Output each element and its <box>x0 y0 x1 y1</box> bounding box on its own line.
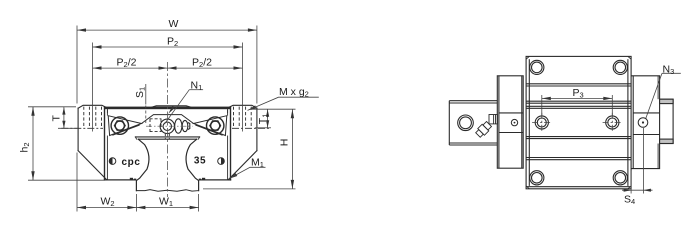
svg-text:35: 35 <box>194 155 206 166</box>
N1 leader <box>165 90 190 124</box>
right wing bottom chamfer 45deg <box>228 151 257 180</box>
N3 port circle <box>638 118 648 128</box>
P2/2 dimension line <box>93 67 243 69</box>
wing hidden tapped holes (dashed) right <box>234 107 252 127</box>
left wing bottom chamfer 45deg <box>78 151 107 180</box>
W1 extensions <box>135 194 137 212</box>
hidden side port box (dashed) left of nipple <box>150 119 162 132</box>
rail bottom break line <box>136 190 198 192</box>
svg-text:H: H <box>279 139 291 147</box>
S4 extension lines <box>630 171 632 194</box>
right wing outer edge <box>256 108 258 150</box>
P3 extension lines <box>541 95 543 116</box>
block bottom right <box>200 179 231 181</box>
T arrows <box>62 107 65 115</box>
svg-text:T: T <box>51 115 63 122</box>
left end plate <box>497 76 523 168</box>
N1 leader arrow <box>168 106 175 114</box>
cavity line above rail head <box>135 136 199 138</box>
cpc logo stamp left (half-filled circle mark) <box>109 157 140 168</box>
block body right edge <box>230 107 232 180</box>
grease nipple retainer trapezoid <box>142 115 194 124</box>
h2 extension bottom <box>28 179 104 181</box>
W2/W1 arrows <box>77 206 86 209</box>
end plate screw hole <box>511 119 517 125</box>
rail left flank with curved groove <box>136 139 149 190</box>
P2 dimension line <box>93 46 243 48</box>
P2/2 arrows <box>93 66 102 69</box>
rail cross-section profile <box>136 139 198 191</box>
h2 arrows <box>31 107 34 116</box>
left wing top <box>78 105 106 108</box>
crosshair tapped holes <box>535 116 619 129</box>
hidden grease passage below nipple <box>165 134 169 139</box>
block body left edge <box>104 107 106 180</box>
T1 dimension line <box>267 109 269 128</box>
seal lip marks at block-rail bottom interface <box>130 178 205 181</box>
S1 extension line <box>145 84 147 105</box>
N3 underline + leader <box>662 72 681 74</box>
P3 arrows <box>542 97 551 100</box>
block body inner edge hidden dashes above triangles <box>107 110 227 116</box>
main block body (plan) <box>526 56 631 188</box>
T dimension line <box>63 107 65 128</box>
block top face band <box>105 107 231 110</box>
left bolt: outer circle, hex socket, inner circle <box>111 117 128 134</box>
corner screw holes <box>530 60 628 185</box>
T1 arrows <box>266 109 269 117</box>
W dimension line <box>77 29 257 31</box>
wing hidden tapped holes (dashed) left <box>84 107 102 127</box>
S4 dimension line with outside arrows <box>622 189 653 191</box>
P2 extension lines <box>92 43 94 132</box>
W extension lines <box>76 26 78 104</box>
W arrows <box>77 28 86 31</box>
W2 left extension <box>76 153 78 212</box>
nipple horizontal centerline <box>146 125 193 127</box>
M1 leader arrow <box>229 173 238 179</box>
W1 W2 dimension line <box>77 207 199 209</box>
M x g2 leader arrow <box>248 105 257 110</box>
S1 hidden continuation <box>145 106 147 124</box>
size stamp 35 right <box>194 155 224 166</box>
leader lines <box>165 90 319 179</box>
thread depth dash-dot line left <box>61 127 103 129</box>
M x g2 leader + underline <box>248 97 319 110</box>
rail mounting hole <box>458 115 474 131</box>
svg-text:W: W <box>169 18 179 30</box>
horizontal band lines <box>526 83 631 85</box>
rail strip <box>449 101 497 145</box>
left raceway triangle <box>108 116 141 136</box>
nipple body ellipses <box>175 119 182 133</box>
right end plate <box>631 76 660 169</box>
P3 dimension line <box>542 97 613 99</box>
T1/H top extension <box>250 108 295 110</box>
H bottom extension <box>203 188 296 190</box>
T extension bottom <box>58 127 78 129</box>
H dimension line <box>291 109 293 189</box>
H arrows <box>291 109 294 118</box>
right raceway triangle <box>194 116 227 136</box>
rail right flank with curved groove <box>186 139 199 190</box>
right bolt <box>207 117 224 134</box>
M1 leader + underline <box>229 167 266 179</box>
rail end bar protruding right <box>660 99 674 143</box>
thread depth dash-dot line right <box>232 127 271 129</box>
left wing outer edge <box>77 108 79 150</box>
centerline vertical (dash-dot) <box>167 62 169 197</box>
P2 arrows <box>93 45 102 48</box>
dimension texts, left view <box>19 18 309 208</box>
arrowheads <box>31 28 294 209</box>
boss band lines on end plate <box>499 112 523 114</box>
S4 arrows (outside, pointing inward) <box>624 189 632 192</box>
boss band on right end plate <box>633 112 659 114</box>
grease nipple: hex head circle <box>160 119 190 134</box>
h2 extension top <box>28 106 76 108</box>
grease nipple on left end plate <box>475 115 498 139</box>
svg-text:cpc: cpc <box>121 157 140 168</box>
grease boss raised plate <box>152 106 191 107</box>
rail head top <box>138 138 196 140</box>
svg-text:M x g2: M x g2 <box>279 86 309 99</box>
block bottom left <box>105 179 136 181</box>
inner chamfer verticals <box>528 59 530 186</box>
right wing top <box>229 105 257 108</box>
T1 bottom extension <box>255 127 271 129</box>
h2 dimension line <box>32 107 34 180</box>
